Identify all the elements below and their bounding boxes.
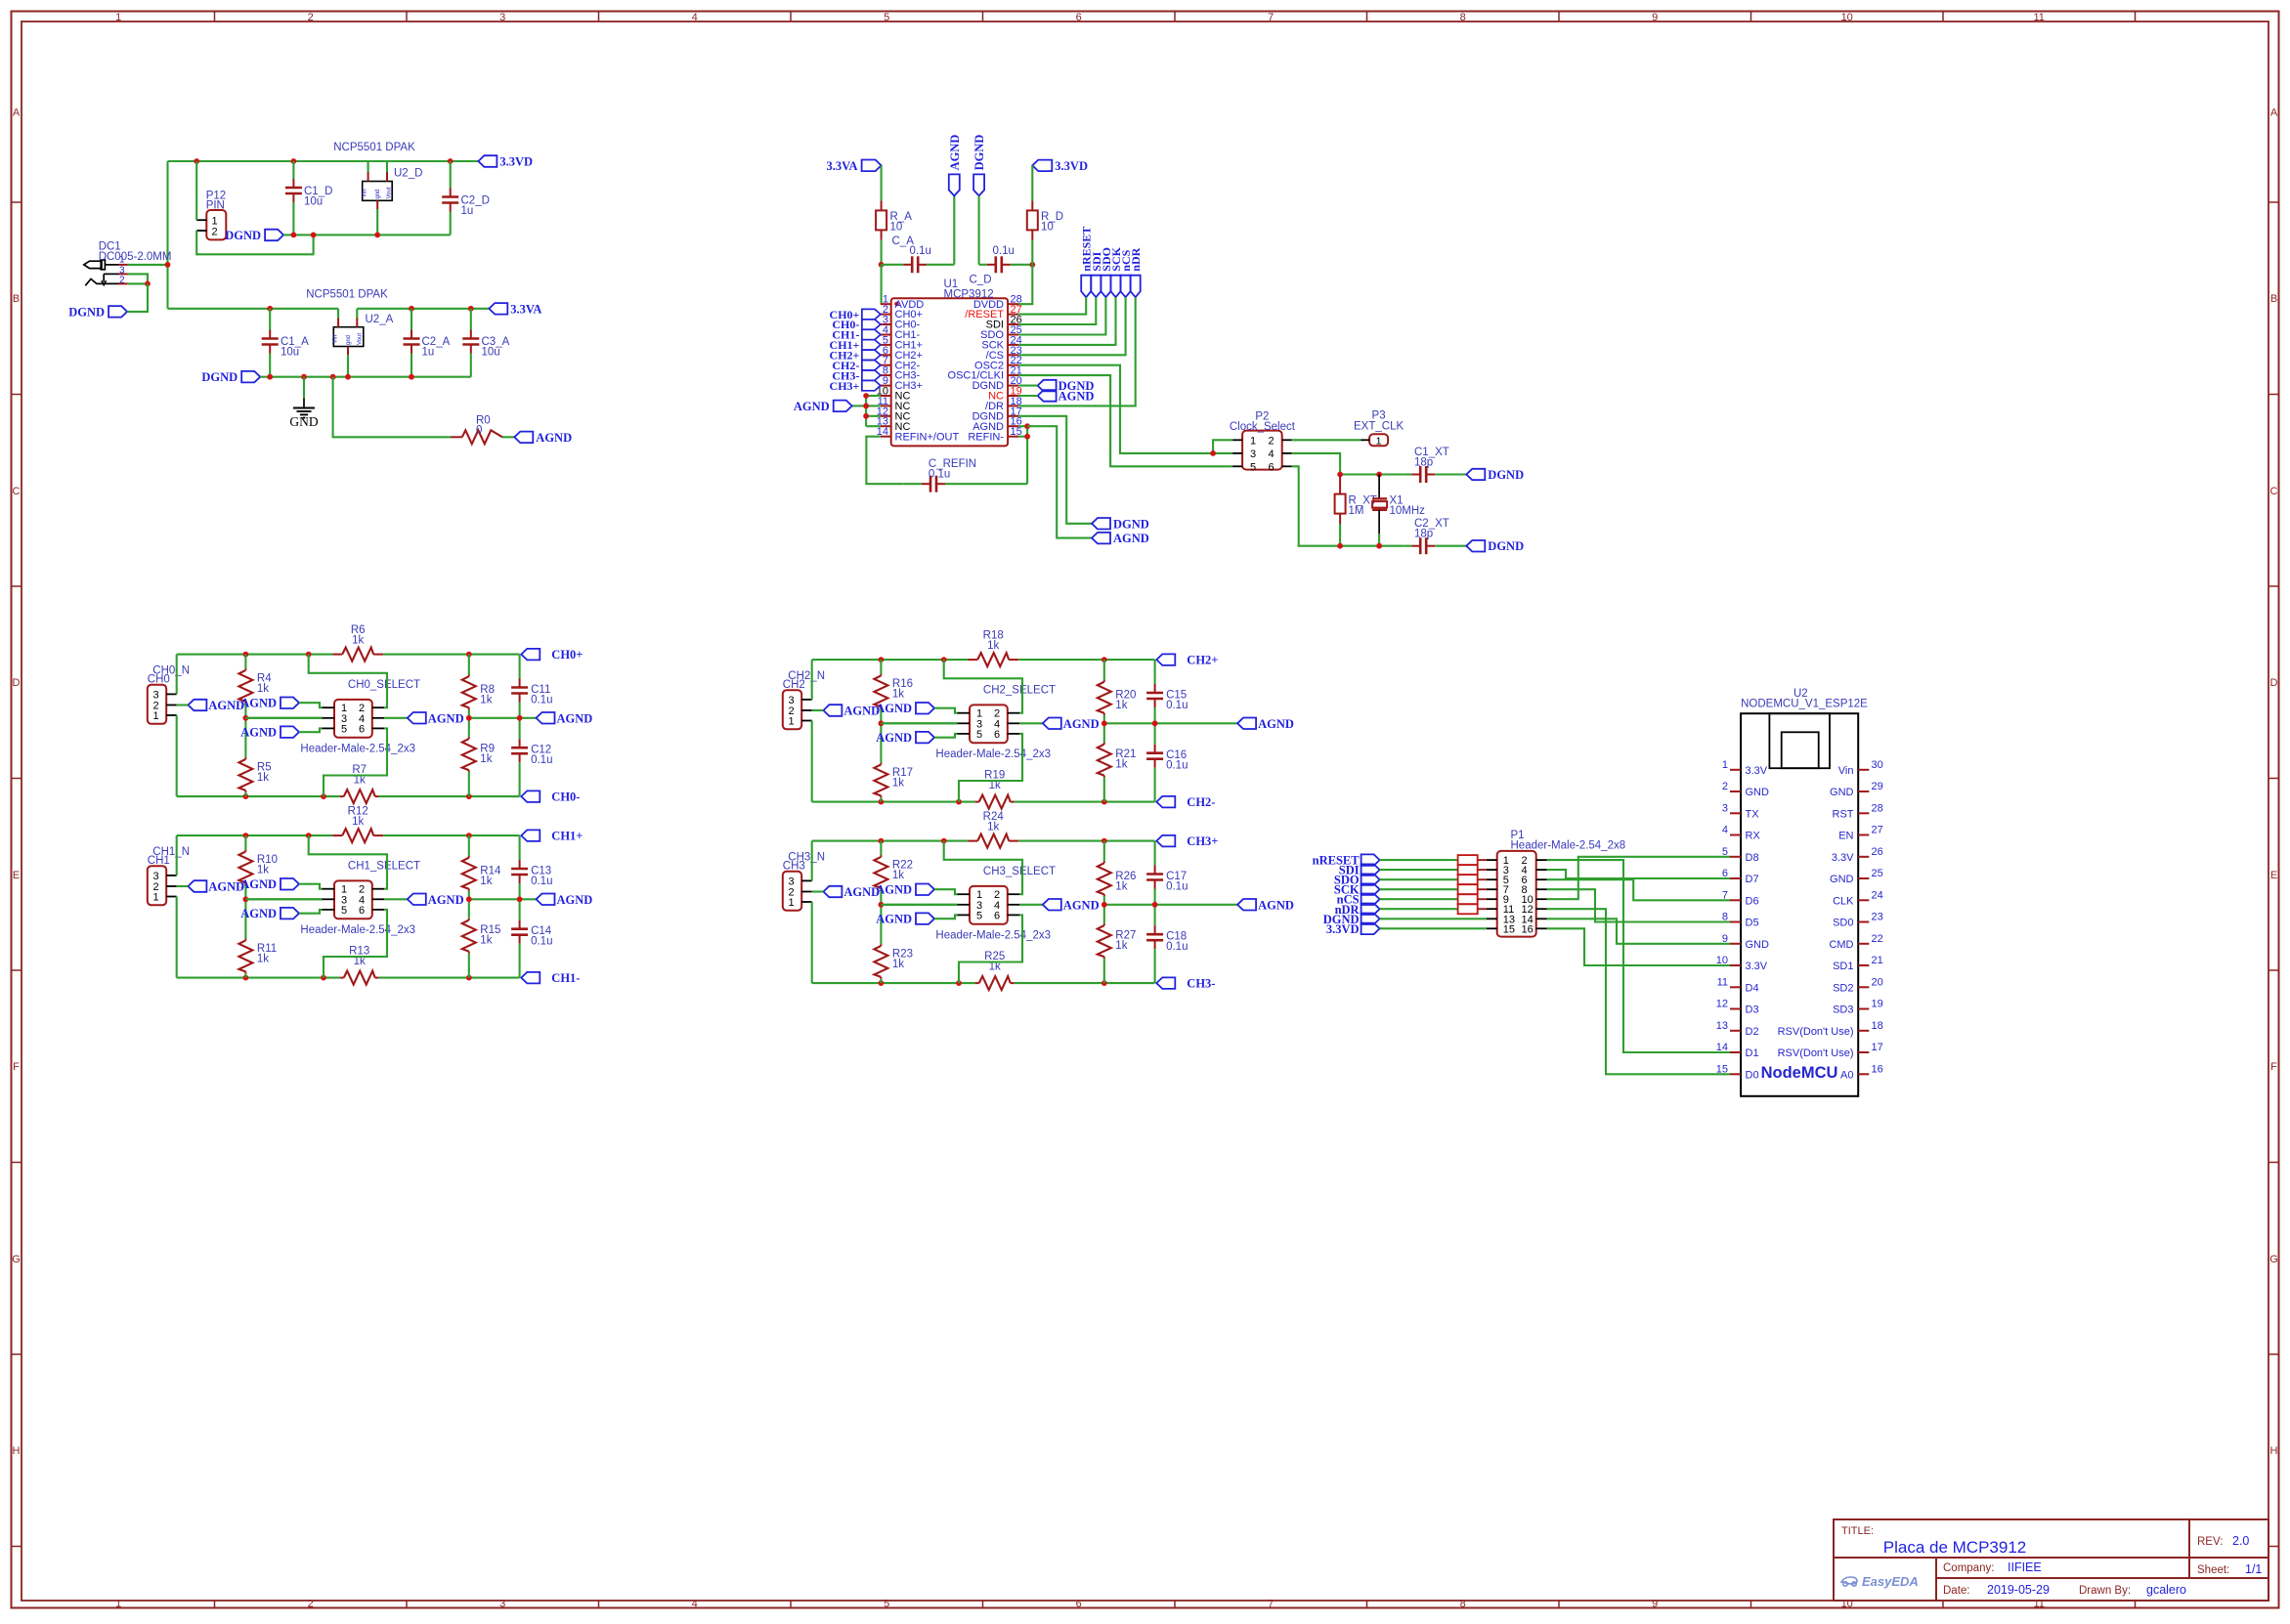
net flag AGND mid	[1092, 532, 1149, 545]
capacitor C11	[511, 655, 528, 718]
wire DGND input	[127, 283, 148, 312]
svg-text:0.1u: 0.1u	[993, 245, 1015, 257]
svg-text:EN: EN	[1838, 831, 1853, 842]
svg-text:GND: GND	[1830, 874, 1854, 885]
junction NC pin11	[863, 404, 869, 409]
junction bottom R23	[879, 980, 885, 986]
junction mid R20	[1102, 720, 1107, 726]
svg-text:Placa de MCP3912: Placa de MCP3912	[1883, 1538, 2026, 1557]
wire nRESET to D1	[1547, 860, 1731, 1052]
junction mid C11	[517, 715, 523, 721]
net flag CH1+	[521, 830, 583, 843]
wire connector pin1 down	[811, 902, 813, 983]
svg-text:D1: D1	[1746, 1047, 1759, 1059]
svg-text:A0: A0	[1840, 1069, 1853, 1081]
junction top rail P12	[194, 158, 199, 164]
net flag 3.3VD P1	[1326, 922, 1380, 936]
junction bottom R11	[243, 975, 249, 981]
svg-text:4: 4	[692, 1599, 698, 1610]
net flag AGND power	[514, 431, 572, 445]
junction P2 pin3	[1210, 450, 1216, 456]
svg-text:D6: D6	[1746, 895, 1759, 907]
resistor R24	[977, 834, 1009, 848]
svg-text:20: 20	[1872, 976, 1883, 988]
resistor R22	[874, 841, 887, 905]
net flag SDO	[1100, 247, 1113, 297]
connector CH2	[783, 690, 812, 729]
svg-text:AGND: AGND	[794, 400, 830, 413]
svg-text:5: 5	[1722, 846, 1728, 858]
net flag AGND header pin5	[876, 731, 957, 745]
svg-text:1k: 1k	[480, 876, 492, 887]
svg-text:CH3+: CH3+	[1187, 834, 1218, 848]
junction crystal top X1	[1376, 472, 1382, 478]
label P3	[1354, 410, 1404, 433]
label U2_D	[394, 168, 422, 180]
wire NC pins bus	[852, 396, 881, 426]
capacitor C2_D	[442, 161, 458, 235]
wire connector pin3 up	[176, 835, 178, 876]
svg-text:TITLE:: TITLE:	[1841, 1525, 1874, 1537]
wire connector pin3 up	[811, 841, 813, 881]
label R25	[984, 951, 1005, 973]
wire 3.3VD top rail	[168, 160, 479, 162]
net flag DGND P1	[1323, 913, 1380, 926]
svg-text:0.1u: 0.1u	[1166, 941, 1188, 953]
svg-text:0: 0	[476, 425, 482, 437]
junction bottom pin6 drop	[956, 799, 962, 805]
svg-text:H: H	[13, 1445, 21, 1457]
resistor R9	[462, 718, 476, 796]
junction mid R4	[243, 715, 249, 721]
wire /DR net	[1018, 297, 1136, 406]
svg-text:Date:: Date:	[1943, 1585, 1970, 1597]
svg-text:2: 2	[1722, 781, 1728, 792]
wire mid rail left	[245, 898, 322, 900]
svg-text:NODEMCU_V1_ESP12E: NODEMCU_V1_ESP12E	[1741, 699, 1868, 710]
label R15	[480, 924, 500, 947]
svg-text:3: 3	[499, 12, 505, 23]
junction top rail C2_D	[448, 158, 454, 164]
wire nCS to jumper	[1380, 898, 1458, 900]
svg-text:28: 28	[1872, 802, 1883, 814]
svg-text:10: 10	[1716, 955, 1728, 966]
capacitor C17	[1146, 841, 1163, 905]
resistor R8	[462, 655, 476, 718]
svg-text:Company:: Company:	[1943, 1562, 1994, 1574]
net flag AGND header pin4	[1043, 717, 1100, 731]
svg-text:10: 10	[1841, 12, 1853, 23]
svg-text:1k: 1k	[257, 772, 269, 784]
jumper resistor nCS	[1458, 894, 1487, 904]
label CH2_SELECT	[983, 684, 1056, 696]
title block	[1834, 1519, 2268, 1601]
svg-text:CH2_SELECT: CH2_SELECT	[983, 684, 1056, 696]
label C_D value	[993, 245, 1015, 257]
resistor R10	[238, 835, 252, 899]
svg-text:Vout: Vout	[387, 187, 393, 198]
net flag AGND mid rail	[1237, 717, 1294, 731]
label C17	[1166, 871, 1188, 893]
net flag CH0- input	[832, 318, 881, 331]
wire DC1 pin2	[128, 282, 148, 284]
svg-text:GND: GND	[1746, 787, 1770, 798]
wire header pin4	[384, 717, 408, 719]
svg-text:22: 22	[1872, 933, 1883, 945]
svg-text:11: 11	[1717, 976, 1728, 988]
wire header pin2 riser	[944, 841, 1022, 895]
svg-text:1k: 1k	[480, 695, 492, 706]
net flag DGND mid	[1092, 517, 1149, 531]
label U2_A	[366, 314, 394, 325]
svg-text:5: 5	[1250, 461, 1256, 473]
wire DGND flag to C_D	[978, 195, 980, 264]
svg-text:5: 5	[884, 1599, 889, 1610]
svg-text:AGND: AGND	[208, 699, 244, 712]
net flag CH0+	[521, 648, 583, 662]
label CH3_N	[783, 851, 825, 872]
label REV	[2197, 1534, 2249, 1548]
net flag AGND mid rail	[1237, 898, 1294, 912]
svg-text:1k: 1k	[1115, 759, 1127, 771]
junction top pin2 riser	[306, 652, 312, 658]
net flag nDR	[1129, 247, 1143, 297]
junction DGND C1_A	[267, 374, 273, 380]
svg-text:3.3VD: 3.3VD	[499, 155, 533, 169]
svg-text:29: 29	[1872, 781, 1883, 792]
wire R0 net	[333, 377, 462, 438]
net flag AGND connector	[177, 699, 245, 712]
svg-text:GND: GND	[1830, 787, 1854, 798]
svg-text:9: 9	[1652, 12, 1658, 23]
connector CH0_SELECT header	[323, 700, 385, 738]
svg-text:DC005-2.0MM: DC005-2.0MM	[99, 251, 172, 263]
wire header pin3	[245, 898, 322, 900]
net flag CH2-	[1156, 795, 1215, 809]
net flag CH0-	[521, 791, 580, 804]
logo EasyEDA	[1841, 1574, 1919, 1589]
label CH2_N	[783, 670, 825, 691]
wire crystal top rail	[1340, 473, 1404, 475]
label C1_XT	[1414, 447, 1449, 469]
label R21	[1115, 748, 1136, 771]
svg-text:CH0+: CH0+	[551, 648, 583, 662]
svg-text:1k: 1k	[892, 777, 904, 789]
svg-text:REFIN+/OUT: REFIN+/OUT	[895, 431, 960, 443]
label R9	[480, 744, 495, 766]
wire R0 to AGND	[502, 436, 514, 438]
net flag nCS P1	[1337, 893, 1380, 907]
wire nRESET to jumper	[1380, 859, 1458, 861]
net flag 3.3VA	[489, 302, 541, 316]
wire connector pin1 down	[811, 721, 813, 802]
net flag DGND pin20	[1038, 379, 1095, 393]
wire CH2- bottom rail	[812, 801, 1155, 803]
svg-text:0.1u: 0.1u	[929, 469, 950, 481]
wire SDO to jumper	[1380, 878, 1458, 880]
wire OSC1/CLKI net	[1018, 375, 1232, 466]
label Header-Male-2.54_2x3	[935, 929, 1051, 941]
svg-text:25: 25	[1872, 868, 1883, 879]
label C_A	[892, 235, 931, 257]
label C_REFIN	[929, 458, 976, 481]
junction DGND rail P12	[311, 233, 317, 238]
svg-text:REFIN-: REFIN-	[968, 431, 1004, 443]
svg-text:AGND: AGND	[876, 883, 912, 897]
svg-text:CH0-: CH0-	[551, 791, 580, 804]
label R8	[480, 684, 495, 706]
svg-text:1k: 1k	[987, 640, 999, 652]
net flag AGND connector	[812, 885, 881, 899]
svg-text:0.1u: 0.1u	[910, 245, 931, 257]
svg-text:2: 2	[119, 276, 125, 286]
svg-text:0.1u: 0.1u	[531, 936, 552, 948]
junction bottom R9	[466, 793, 472, 799]
junction DC1 pin2	[145, 281, 151, 287]
wire CH3+ top rail	[812, 840, 1155, 842]
svg-text:DGND: DGND	[1488, 539, 1524, 553]
svg-text:3: 3	[1722, 802, 1728, 814]
svg-text:NodeMCU: NodeMCU	[1761, 1064, 1838, 1082]
IC U2 left pins	[1716, 759, 1769, 1082]
svg-text:SD0: SD0	[1833, 918, 1853, 929]
svg-text:16: 16	[1522, 923, 1534, 935]
IC U1 MCP3912 body	[891, 298, 1008, 446]
wire AVDD	[881, 265, 883, 304]
svg-text:GND: GND	[289, 414, 318, 429]
svg-text:Header-Male-2.54_2x3: Header-Male-2.54_2x3	[300, 743, 415, 754]
svg-text:3.3V: 3.3V	[1832, 852, 1854, 864]
svg-text:6: 6	[1076, 1599, 1082, 1610]
label C_D	[970, 275, 992, 286]
wire header pin3	[881, 722, 957, 724]
junction bottom R15	[466, 975, 472, 981]
svg-text:TX: TX	[1746, 808, 1760, 820]
junction bottom pin6 drop	[321, 975, 326, 981]
svg-text:19: 19	[1872, 999, 1883, 1010]
svg-text:24: 24	[1872, 889, 1883, 901]
svg-text:AGND: AGND	[428, 711, 464, 725]
resistor R18	[977, 653, 1009, 666]
junction bottom R5	[243, 793, 249, 799]
junction top R14	[466, 833, 472, 838]
label CH1_SELECT	[348, 860, 420, 872]
svg-text:3: 3	[1250, 449, 1256, 460]
svg-text:4: 4	[692, 12, 698, 23]
svg-text:12: 12	[1716, 999, 1728, 1010]
svg-text:PIN: PIN	[206, 200, 225, 212]
svg-text:NCP5501 DPAK: NCP5501 DPAK	[306, 289, 388, 301]
wire header pin2 riser	[309, 655, 387, 708]
svg-text:CH3: CH3	[783, 860, 805, 872]
net flag DGND input	[68, 305, 127, 319]
wire connector pin3 up	[176, 655, 178, 695]
junction top R10	[243, 833, 249, 838]
resistor R_XT	[1335, 475, 1346, 546]
connector CH1_SELECT header	[323, 880, 385, 919]
svg-text:AGND: AGND	[240, 726, 277, 740]
wire C_A to AGND flag	[953, 195, 955, 264]
label R_XT	[1349, 495, 1377, 518]
resistor R_A	[876, 210, 886, 230]
regulator U2_D	[363, 161, 393, 235]
wire 3.3VA rail	[168, 308, 339, 310]
net flag AGND header pin4	[408, 711, 464, 725]
net flag DGND upper	[225, 229, 283, 242]
wire P12 pin2	[196, 231, 313, 254]
net flag nRESET	[1080, 227, 1094, 298]
svg-text:AGND: AGND	[1258, 717, 1294, 731]
junction mid R26	[1102, 902, 1107, 908]
resistor R7	[344, 790, 375, 803]
label R24	[983, 811, 1005, 833]
wire mid rail right	[1104, 722, 1237, 724]
svg-text:G: G	[2269, 1254, 2278, 1265]
svg-text:10u: 10u	[482, 347, 500, 359]
net flag AGND header pin5	[240, 907, 322, 920]
wire DGND lower rail	[260, 376, 471, 378]
wire mid rail left	[881, 904, 957, 906]
junction top R16	[879, 657, 885, 662]
svg-text:6: 6	[359, 723, 365, 735]
capacitor C18	[1146, 905, 1163, 983]
label R26	[1115, 871, 1136, 893]
resistor R19	[979, 795, 1011, 809]
svg-text:gnd: gnd	[375, 189, 381, 198]
wire nDR to jumper	[1380, 908, 1458, 910]
label C1_A	[281, 336, 309, 359]
capacitor C16	[1146, 723, 1163, 801]
label R7	[352, 764, 367, 787]
svg-text:D: D	[2270, 677, 2278, 689]
net flag 3.3VD	[478, 155, 533, 169]
svg-text:1k: 1k	[1115, 700, 1127, 711]
svg-text:15: 15	[1716, 1063, 1728, 1075]
svg-text:E: E	[2270, 870, 2277, 881]
junction AVDD C_A	[879, 262, 885, 268]
label R19	[984, 770, 1005, 792]
connector P12	[196, 210, 226, 239]
label R23	[892, 948, 913, 970]
junction NC pin10	[863, 393, 869, 399]
net flag AGND NC	[794, 400, 852, 413]
svg-text:AGND: AGND	[843, 885, 880, 899]
connector CH3_SELECT header	[958, 886, 1020, 924]
svg-text:2.0: 2.0	[2232, 1534, 2249, 1548]
net flag CH2+	[1156, 654, 1218, 667]
junction mid C13	[517, 896, 523, 902]
junction top rail C1_D	[291, 158, 297, 164]
svg-text:DGND: DGND	[68, 305, 105, 319]
svg-text:Clock_Select: Clock_Select	[1230, 421, 1296, 433]
IC U1 left pins	[877, 294, 960, 444]
svg-text:AGND: AGND	[240, 877, 277, 891]
net flag AGND column	[948, 135, 962, 196]
resistor R27	[1098, 905, 1111, 983]
connector CH2_SELECT header	[958, 705, 1020, 743]
label R_A	[890, 211, 913, 234]
svg-text:AGND: AGND	[240, 697, 277, 710]
label Header-Male-2.54_2x3	[935, 748, 1051, 760]
net flag CH1-	[521, 971, 580, 985]
wire SDO to D6	[1547, 879, 1731, 900]
wire SDI to D7	[1547, 870, 1731, 878]
label C1_D	[304, 186, 332, 208]
net flag SCK	[1109, 246, 1123, 297]
svg-text:6: 6	[1076, 12, 1082, 23]
svg-text:1k: 1k	[257, 864, 269, 876]
wire header pin6 drop	[324, 910, 387, 978]
wire header pin4	[1019, 904, 1043, 906]
svg-text:6: 6	[1269, 461, 1275, 473]
IC U2 right pins	[1778, 759, 1883, 1082]
label CH0_SELECT	[348, 679, 420, 691]
wire P2 pin1	[1213, 440, 1232, 453]
svg-text:1: 1	[119, 255, 125, 266]
junction NC pin12	[863, 413, 869, 419]
svg-text:CH1: CH1	[148, 855, 170, 867]
wire DC1 pin3	[128, 274, 148, 283]
svg-text:AGND: AGND	[1063, 898, 1100, 912]
junction top pin2 riser	[941, 657, 947, 662]
label R16	[892, 678, 913, 701]
svg-text:gnd: gnd	[346, 335, 352, 345]
junction 3.3VA C1_A	[267, 306, 273, 312]
svg-text:1k: 1k	[987, 822, 999, 833]
net flag AGND header pin5	[876, 913, 957, 926]
label DC1 pin numbers	[119, 255, 125, 286]
wire mid rail right	[469, 898, 537, 900]
capacitor C1_D	[285, 161, 302, 235]
wire CH2+ top rail	[812, 659, 1155, 661]
svg-text:AGND: AGND	[1063, 717, 1100, 731]
svg-text:0.1u: 0.1u	[1166, 880, 1188, 892]
junction crystal top R_XT	[1337, 472, 1343, 478]
svg-text:23: 23	[1872, 912, 1883, 923]
net flag DGND lower	[201, 370, 260, 384]
jumper resistor SCK	[1458, 884, 1487, 894]
wire REFIN+ loop	[866, 437, 903, 485]
label C15	[1166, 689, 1188, 711]
jumper resistor SDO	[1458, 875, 1487, 884]
junction DVDD C_D	[1029, 262, 1035, 268]
junction mid C15	[1152, 720, 1158, 726]
junction DC1 pin1	[165, 262, 171, 268]
wire CH0+ top rail	[177, 654, 520, 656]
svg-text:6: 6	[994, 729, 1000, 741]
junction DGND U2_A	[345, 374, 351, 380]
svg-text:1M: 1M	[1349, 505, 1364, 517]
net flag AGND header pin1	[240, 697, 322, 710]
label C2_XT	[1414, 518, 1449, 540]
svg-text:F: F	[13, 1061, 20, 1073]
svg-text:4: 4	[1269, 449, 1275, 460]
svg-text:10: 10	[1041, 222, 1054, 234]
svg-text:IIFIEE: IIFIEE	[2008, 1560, 2042, 1574]
wire header pin2 riser	[944, 660, 1022, 713]
wire P2 pin4 to crystal rail	[1292, 453, 1340, 475]
resistor R4	[238, 655, 252, 718]
svg-text:C: C	[13, 486, 21, 497]
svg-text:3.3VD: 3.3VD	[1055, 159, 1088, 173]
svg-text:gcalero: gcalero	[2146, 1583, 2186, 1597]
svg-text:5: 5	[341, 723, 347, 735]
svg-text:B: B	[13, 293, 20, 305]
capacitor C2_XT	[1404, 537, 1466, 554]
svg-text:DGND: DGND	[225, 229, 261, 242]
net flag CH0+ input	[830, 308, 881, 321]
resistor R15	[462, 899, 476, 977]
